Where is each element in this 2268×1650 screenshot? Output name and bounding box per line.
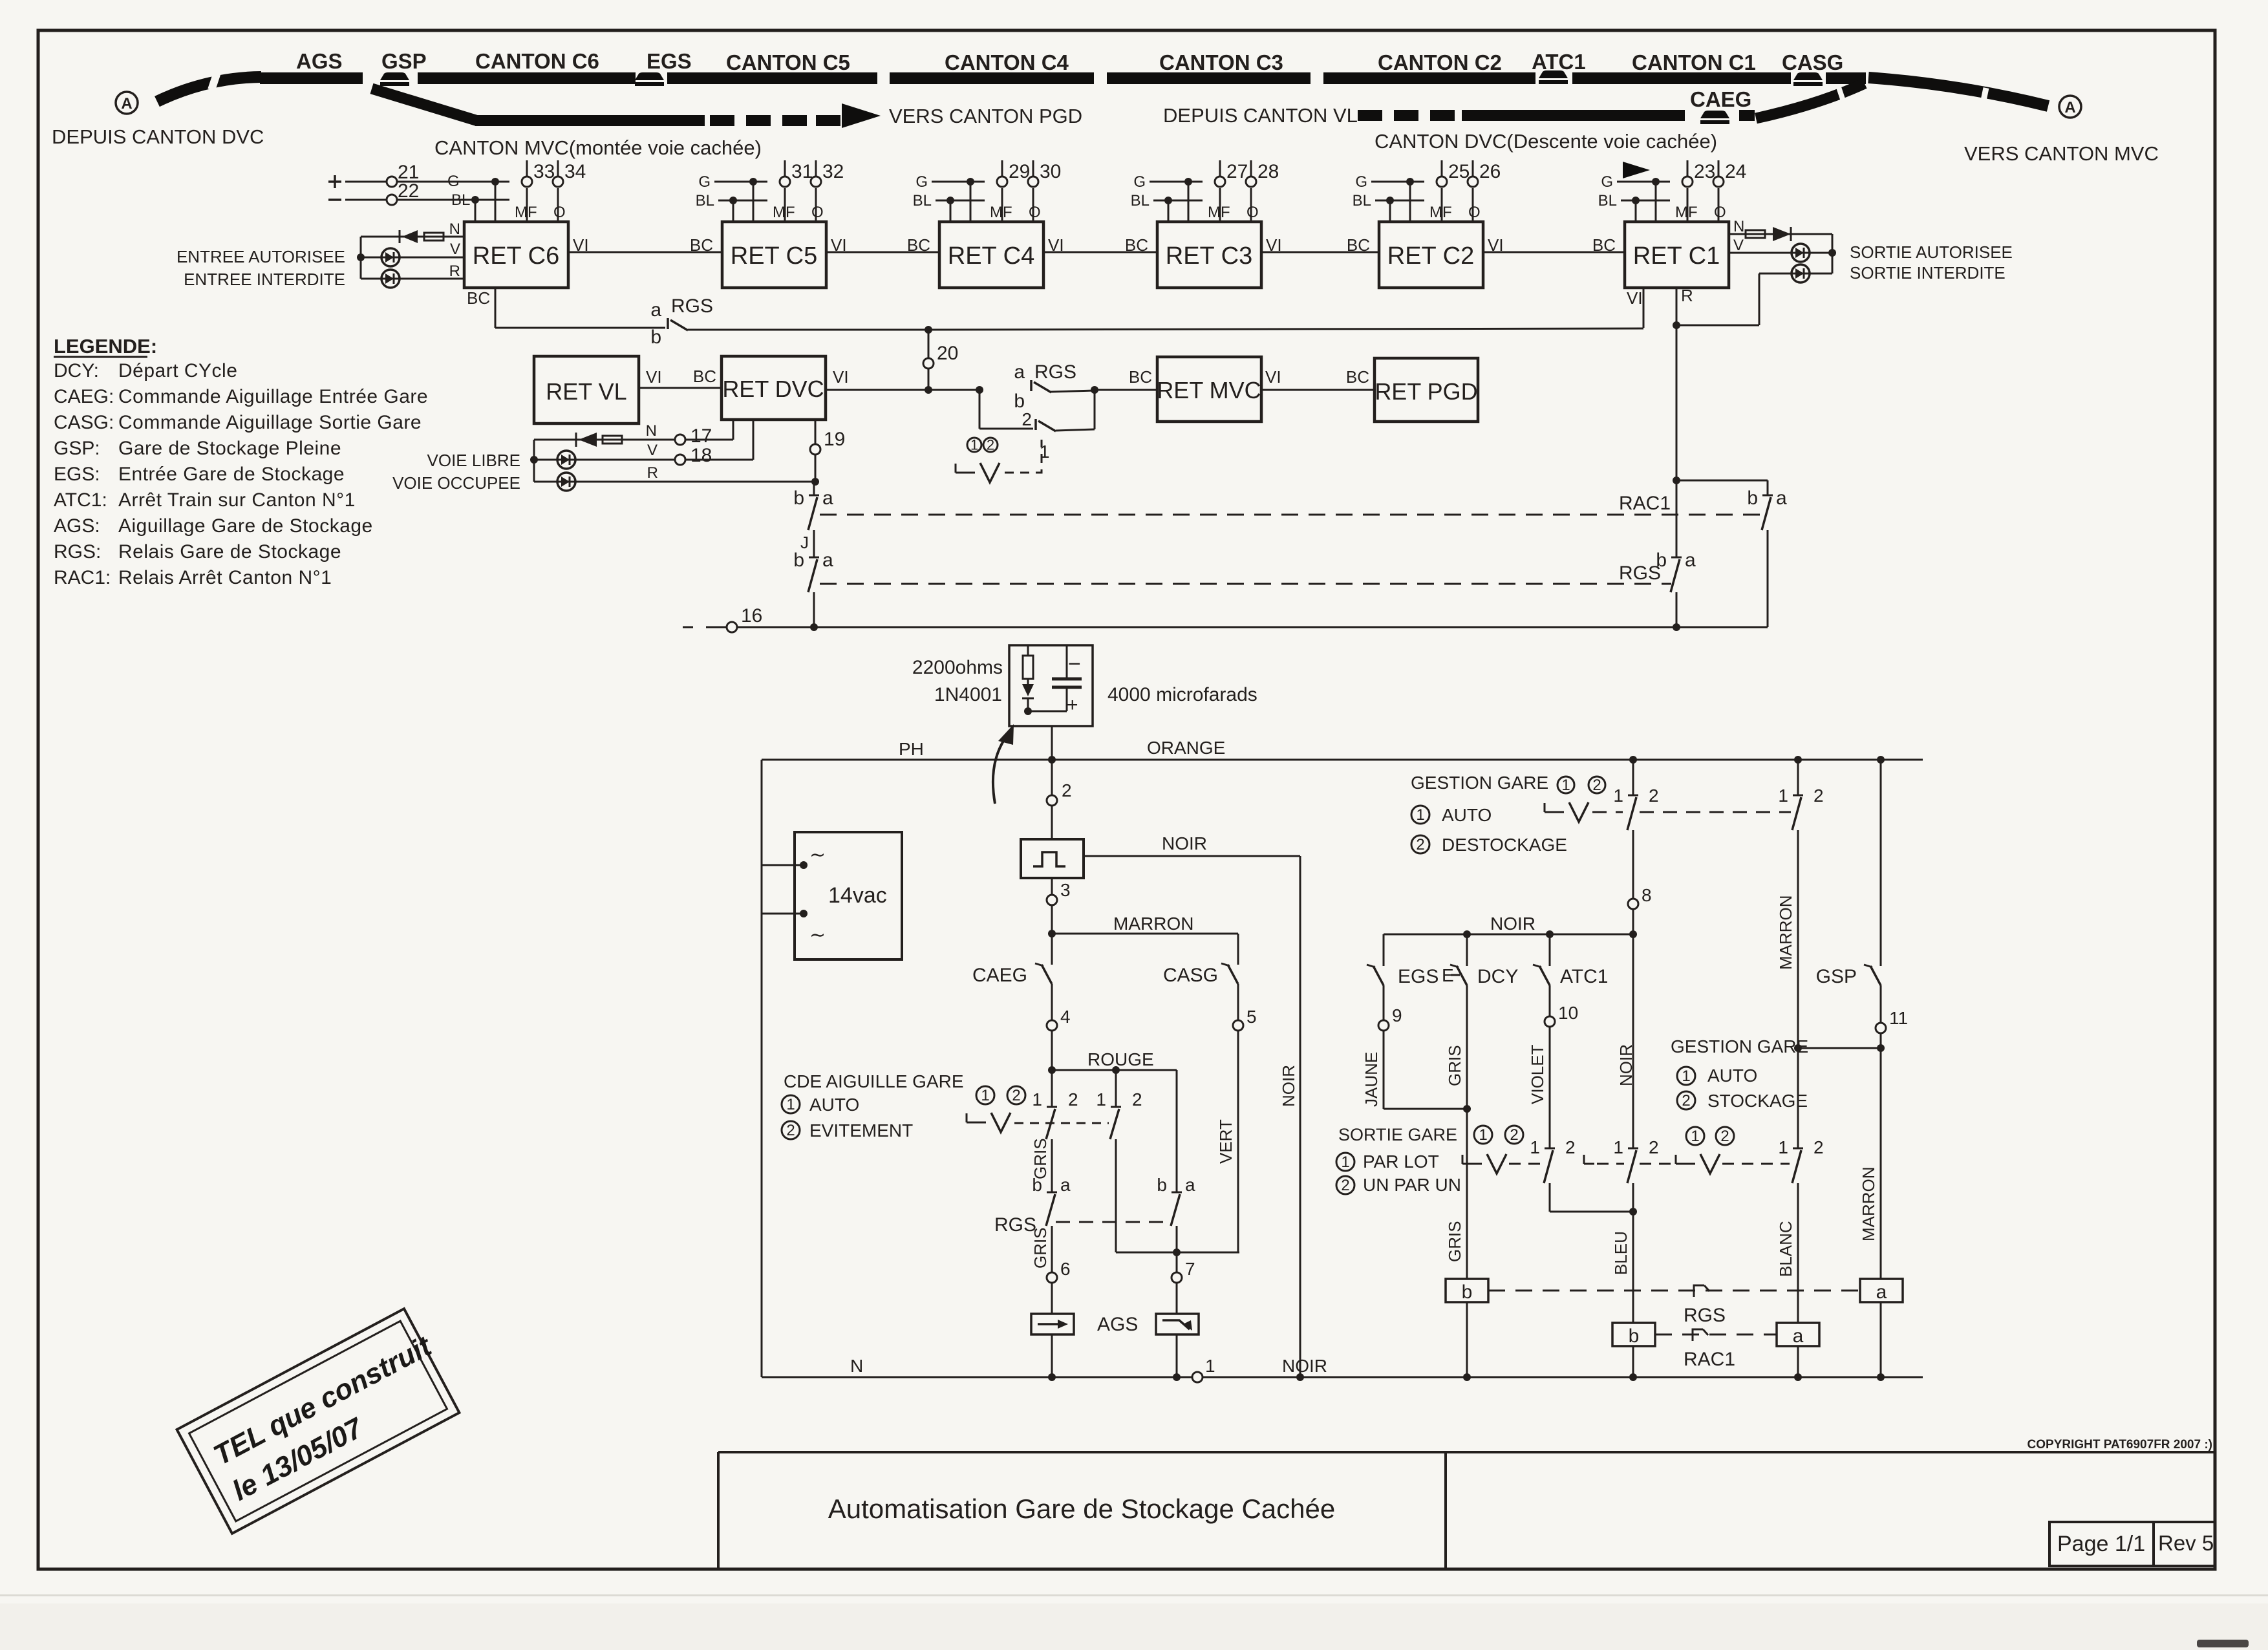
svg-text:Commande Aiguillage Sortie: Commande Aiguillage Sortie Gare (118, 412, 422, 433)
relay box RET MVC (1157, 357, 1261, 422)
svg-text:DCY:: DCY: (54, 360, 99, 381)
svg-text:CANTON C1: CANTON C1 (1632, 50, 1756, 74)
svg-text:N: N (449, 220, 460, 238)
svg-text:CAEG: CAEG (1690, 87, 1751, 111)
svg-text:1: 1 (1032, 1089, 1042, 1109)
contact 1/2 on CAEG rail (1051, 1070, 1053, 1107)
svg-text:RGS: RGS (1619, 562, 1661, 584)
svg-text:AGS:: AGS: (54, 515, 100, 537)
merge horizontal (1116, 1252, 1239, 1254)
svg-text:19: 19 (824, 429, 845, 450)
svg-text:2: 2 (786, 1122, 795, 1139)
svg-text:A: A (2064, 99, 2075, 116)
RC filter block box (1009, 645, 1093, 726)
GRIS rail DCY contact (1466, 934, 1468, 966)
svg-text:ROUGE: ROUGE (1087, 1049, 1154, 1069)
svg-text:N: N (646, 422, 657, 440)
C1 R pin down (1676, 288, 1678, 325)
dashed RGS relay row (1488, 1290, 1860, 1292)
selector symbol gestion top (1544, 803, 1546, 812)
contact b/a RGS left (809, 557, 819, 559)
svg-text:G: G (1601, 173, 1613, 191)
svg-text:1: 1 (1613, 786, 1623, 806)
svg-text:31: 31 (791, 161, 813, 182)
link MARRON-GSP rails (1798, 1047, 1881, 1049)
C6 BC pin down (495, 288, 497, 328)
right contact chain RAC1 (1676, 480, 1768, 482)
svg-text:2: 2 (1132, 1089, 1142, 1109)
block to PH wire (1051, 726, 1053, 760)
svg-text:G: G (1133, 173, 1146, 191)
svg-text:2: 2 (1062, 780, 1072, 800)
NOIR wire of DCY group (1384, 934, 1633, 936)
node 20 drop (928, 330, 930, 358)
dashed RAC1 line (820, 514, 1762, 516)
relay box RET C5 (722, 222, 826, 288)
AGS coil right (1156, 1314, 1199, 1334)
stamp TEL que construit (177, 1305, 465, 1534)
svg-text:O: O (1714, 204, 1726, 221)
svg-text:VOIE LIBRE: VOIE LIBRE (427, 451, 521, 470)
svg-text:2: 2 (1592, 777, 1601, 794)
svg-text:GRIS: GRIS (1445, 1045, 1464, 1086)
svg-text:VI: VI (1627, 288, 1643, 308)
svg-text:b: b (1656, 550, 1667, 571)
svg-text:2: 2 (1565, 1137, 1576, 1157)
C1 VI pin down (1643, 288, 1645, 328)
svg-text:22: 22 (398, 180, 419, 202)
bus BC from C6 to node 20 (495, 327, 665, 329)
track: lower line dashes right (1358, 110, 1382, 121)
svg-text:2: 2 (987, 436, 994, 453)
C1 LED bracket (1832, 234, 1834, 273)
svg-text:R: R (1681, 286, 1693, 305)
track: sensor icon GSP (380, 72, 409, 80)
svg-text:a: a (1014, 361, 1025, 383)
bus BC continues to C1 VI (928, 328, 1643, 330)
svg-text:Relais Gare de Stockage: Relais Gare de Stockage (118, 541, 341, 562)
svg-text:1: 1 (1778, 786, 1788, 806)
VERT rail (1237, 1031, 1239, 1252)
terminal 5 (1233, 1020, 1243, 1031)
svg-text:a: a (1776, 487, 1787, 509)
svg-text:AUTO: AUTO (1442, 805, 1492, 825)
svg-text:Automatisation Gare de Stoc: Automatisation Gare de Stockage Cachée (828, 1494, 1335, 1524)
svg-text:RET MVC: RET MVC (1157, 377, 1261, 403)
svg-text:a: a (1685, 550, 1696, 571)
contact 1/2 on rail 2781 top (1797, 760, 1799, 795)
svg-text:10: 10 (1558, 1003, 1578, 1023)
C6 N wire with diode and resistor (361, 236, 464, 238)
svg-text:a: a (1876, 1281, 1887, 1303)
svg-text:BLEU: BLEU (1611, 1231, 1631, 1275)
svg-text:1: 1 (981, 1087, 989, 1104)
svg-text:8: 8 (1642, 885, 1652, 905)
svg-text:UN PAR UN: UN PAR UN (1363, 1175, 1461, 1195)
svg-text:RET DVC: RET DVC (722, 376, 824, 402)
svg-text:SORTIE GARE: SORTIE GARE (1338, 1125, 1457, 1144)
page box (2049, 1522, 2154, 1566)
CASG contact (1237, 934, 1239, 965)
svg-text:25: 25 (1448, 161, 1470, 182)
svg-text:RET C6: RET C6 (473, 242, 559, 270)
svg-text:MF: MF (1675, 204, 1698, 221)
svg-text:9: 9 (1392, 1005, 1402, 1025)
svg-text:1N4001: 1N4001 (934, 684, 1002, 705)
svg-text:O: O (553, 204, 566, 221)
track: AGS diverging curve (372, 89, 478, 121)
svg-text:VERS CANTON PGD: VERS CANTON PGD (889, 105, 1082, 127)
terminal 7 (1176, 1252, 1178, 1272)
svg-text:V: V (647, 442, 658, 459)
voie libre LED (557, 451, 575, 469)
svg-text:G: G (915, 173, 928, 191)
LED entree autorisee (381, 248, 400, 266)
svg-text:GRIS: GRIS (1445, 1221, 1464, 1262)
svg-text:a: a (1185, 1175, 1195, 1195)
C6 LED bracket (360, 237, 362, 279)
contact 1/2 on MARRON rail lower (1797, 1048, 1799, 1148)
svg-text:∼: ∼ (809, 844, 826, 866)
track: lower main line solid left (475, 115, 705, 126)
svg-text:PAR LOT: PAR LOT (1363, 1152, 1439, 1172)
JAUNE rail EGS contact (1383, 934, 1385, 966)
right contact RGS on C1 R rail (1676, 325, 1678, 480)
svg-text:CAEG: CAEG (972, 965, 1027, 986)
relay box RET C4 (939, 222, 1043, 288)
track: arrow VERS CANTON PGD (842, 103, 881, 128)
svg-text:G: G (447, 173, 460, 190)
svg-text:2: 2 (1720, 1128, 1729, 1145)
svg-text:18: 18 (690, 445, 712, 466)
svg-text:b: b (1747, 487, 1758, 509)
svg-text:EGS: EGS (1398, 966, 1439, 987)
svg-text:BC: BC (693, 367, 716, 386)
selector symbol lower (966, 1113, 968, 1122)
svg-text:NOIR: NOIR (1162, 833, 1207, 853)
svg-text:ATC1:: ATC1: (54, 489, 107, 511)
relay box RET C6 (464, 222, 568, 288)
C6 V wire (361, 257, 464, 259)
svg-text:Relais Arrêt Canton N°1: Relais Arrêt Canton N°1 (118, 567, 332, 588)
pulse generator drop wire (1051, 760, 1053, 795)
svg-text:BL: BL (1131, 192, 1150, 209)
svg-text:1: 1 (1205, 1356, 1215, 1376)
svg-text:NOIR: NOIR (1490, 914, 1535, 934)
svg-text:STOCKAGE: STOCKAGE (1707, 1091, 1808, 1111)
rail 2526 to terminal 8 (1632, 830, 1634, 899)
svg-text:a: a (822, 487, 833, 509)
terminal 11 (1876, 1023, 1886, 1033)
track: sensor icon ATC1 (1539, 70, 1568, 78)
svg-text:GESTION GARE: GESTION GARE (1411, 773, 1548, 793)
svg-text:29: 29 (1009, 161, 1030, 182)
svg-text:CDE AIGUILLE GARE: CDE AIGUILLE GARE (784, 1071, 964, 1091)
wire DVC VI to RGS contact (826, 389, 979, 391)
track: left curve from A (157, 77, 261, 102)
svg-text:30: 30 (1040, 161, 1061, 182)
DVC pin N wire 17 (534, 439, 675, 441)
svg-text:MF: MF (1208, 204, 1230, 221)
pulse to MARRON wire (1051, 878, 1053, 895)
RET C2 top terminals 25/26 (1441, 188, 1443, 222)
relay b box RGS (1446, 1279, 1488, 1302)
PH ORANGE horizontal wire (762, 759, 1923, 761)
transformer 14vac box (795, 832, 902, 959)
C1 R wire to interdite LED (1673, 321, 1680, 329)
svg-text:b: b (1032, 1175, 1042, 1195)
svg-text:RET C2: RET C2 (1387, 242, 1474, 270)
svg-text:Entrée Gare de Stockage: Entrée Gare de Stockage (118, 464, 345, 485)
svg-text:1: 1 (970, 436, 978, 453)
svg-text:BC: BC (467, 288, 490, 308)
svg-text:VI: VI (646, 367, 662, 387)
relay b box RAC1 (1612, 1323, 1655, 1346)
svg-text:R: R (449, 262, 460, 280)
svg-text:MF: MF (515, 204, 537, 221)
svg-text:AGS: AGS (296, 49, 343, 73)
svg-text:BC: BC (1129, 367, 1152, 387)
svg-text:JAUNE: JAUNE (1362, 1052, 1381, 1107)
svg-text:b: b (650, 327, 661, 348)
svg-text:1: 1 (1682, 1067, 1690, 1085)
svg-text:1: 1 (1341, 1153, 1349, 1171)
svg-text:2: 2 (1068, 1089, 1078, 1109)
GRIS rail down to b box (1466, 1109, 1468, 1279)
svg-text:+: + (1067, 694, 1078, 716)
svg-text:CANTON C6: CANTON C6 (475, 49, 599, 73)
tick and dash to NOIR contact (1583, 1155, 1585, 1164)
svg-text:BL: BL (913, 192, 932, 209)
svg-text:b: b (1157, 1175, 1167, 1195)
wire to RET MVC (1095, 389, 1157, 391)
left supply rail (761, 760, 763, 1377)
svg-text:14vac: 14vac (828, 883, 887, 908)
svg-text:1: 1 (1479, 1126, 1487, 1144)
wire MVC to PGD (1261, 389, 1375, 391)
svg-text:1: 1 (1416, 806, 1424, 824)
track: lower line dashes to arrow (710, 115, 734, 126)
curved arrow to RC block (993, 737, 1006, 804)
svg-text:Page 1/1: Page 1/1 (2057, 1532, 2145, 1556)
terminal 9 (1378, 1020, 1389, 1031)
terminal + 21 (328, 180, 341, 183)
BLEU rail to b box RAC1 (1632, 1212, 1634, 1323)
junction before RGS contact (976, 386, 983, 394)
svg-text:GESTION GARE: GESTION GARE (1671, 1036, 1808, 1056)
svg-text:4: 4 (1060, 1007, 1071, 1027)
svg-text:NOIR: NOIR (1282, 1356, 1327, 1376)
svg-text:SORTIE AUTORISEE: SORTIE AUTORISEE (1850, 242, 2013, 262)
dashed RGS line (820, 583, 1671, 585)
wire RET VL to RET DVC (639, 387, 722, 389)
svg-text:R: R (647, 464, 658, 482)
svg-text:2: 2 (1341, 1177, 1349, 1194)
svg-text:∼: ∼ (809, 925, 826, 946)
svg-text:1: 1 (1691, 1128, 1699, 1145)
J link (813, 530, 815, 557)
svg-text:VIOLET: VIOLET (1528, 1044, 1547, 1104)
svg-text:a: a (1793, 1325, 1804, 1347)
svg-text:SORTIE INTERDITE: SORTIE INTERDITE (1850, 263, 2006, 283)
GSP contact (1864, 965, 1872, 967)
svg-text:RGS: RGS (671, 295, 713, 317)
svg-text:1: 1 (1530, 1137, 1540, 1157)
C1 interdite wire (1759, 273, 1832, 275)
svg-text:O: O (1468, 204, 1481, 221)
svg-text:2: 2 (1510, 1126, 1518, 1144)
contact a/RGS on BC bus (667, 318, 669, 329)
rev box (2154, 1522, 2215, 1566)
track: sensor icon CASG (1793, 72, 1823, 80)
N bus bottom (762, 1377, 1192, 1378)
svg-text:GRIS: GRIS (1031, 1138, 1050, 1179)
svg-text:2: 2 (1813, 1137, 1824, 1157)
svg-text:6: 6 (1060, 1259, 1071, 1279)
svg-text:EGS: EGS (647, 49, 692, 73)
svg-text:2: 2 (1813, 786, 1824, 806)
track: sensor icon EGS (635, 72, 664, 80)
dashed RAC1 relay row (1655, 1334, 1777, 1336)
svg-text:PH: PH (899, 739, 924, 759)
svg-text:CASG: CASG (1782, 50, 1843, 74)
svg-text:RGS:: RGS: (54, 541, 101, 562)
svg-text:AGS: AGS (1097, 1314, 1138, 1335)
svg-text:G: G (1355, 173, 1367, 191)
svg-text:MARRON: MARRON (1776, 895, 1795, 970)
svg-text:ATC1: ATC1 (1532, 50, 1586, 74)
selector circles gestion top (1557, 777, 1574, 793)
track: circle A left (116, 92, 138, 114)
dashed RGS lower (1056, 1221, 1170, 1223)
svg-text:CANTON C2: CANTON C2 (1378, 50, 1502, 74)
svg-text:33: 33 (533, 161, 555, 182)
svg-text:34: 34 (564, 161, 586, 182)
svg-text:ORANGE: ORANGE (1147, 738, 1225, 758)
svg-text:BC: BC (1346, 367, 1369, 387)
contact 1/2 on rail 2526 top (1632, 760, 1634, 795)
svg-text:NOIR: NOIR (1279, 1065, 1298, 1107)
RET C5 top terminals 31/32 (784, 188, 786, 222)
svg-text:CASG:: CASG: (54, 412, 114, 433)
svg-text:CASG: CASG (1163, 965, 1218, 986)
RET C3 top terminals 27/28 (1219, 188, 1221, 222)
C6 R wire (361, 278, 464, 280)
relay a box RGS (1860, 1279, 1903, 1302)
resistor 2200ohms (1027, 645, 1029, 656)
svg-text:EVITEMENT: EVITEMENT (809, 1120, 913, 1141)
svg-text:AUTO: AUTO (1707, 1066, 1757, 1086)
svg-text:VI: VI (1265, 367, 1281, 387)
relay box RET C1 (1625, 222, 1729, 288)
svg-text:b: b (1462, 1281, 1473, 1303)
svg-text:RET C3: RET C3 (1166, 242, 1252, 270)
MARRON wire (1052, 933, 1238, 935)
svg-text:23: 23 (1694, 161, 1715, 182)
svg-text:ENTREE AUTORISEE: ENTREE AUTORISEE (177, 247, 345, 266)
svg-text:4000 microfarads: 4000 microfarads (1107, 684, 1257, 705)
DVC pin 19 rail (815, 420, 817, 444)
svg-text:G: G (698, 173, 711, 191)
relay box RET DVC (722, 356, 826, 420)
svg-text:b: b (793, 550, 804, 571)
svg-text:DESTOCKAGE: DESTOCKAGE (1442, 835, 1567, 855)
svg-text:O: O (811, 204, 824, 221)
svg-text:CANTON MVC(montée voie cachée): CANTON MVC(montée voie cachée) (434, 136, 762, 159)
svg-text:RET PGD: RET PGD (1375, 378, 1477, 405)
selector circles sortie (1474, 1126, 1492, 1144)
svg-text:1: 1 (786, 1096, 795, 1113)
svg-text:26: 26 (1479, 161, 1501, 182)
svg-text:GRIS: GRIS (1031, 1227, 1050, 1269)
svg-text:Arrêt Train sur Canton N°1: Arrêt Train sur Canton N°1 (118, 489, 356, 511)
DVC pin V wire 18 (534, 459, 675, 461)
NOIR right rail (1300, 856, 1301, 1377)
RET C4 top terminals 29/30 (1001, 188, 1003, 222)
capacitor 4000uF (1066, 645, 1068, 658)
contact b/a RGS lower left (1047, 1192, 1057, 1194)
svg-text:RAC1: RAC1 (1684, 1349, 1735, 1370)
svg-text:MF: MF (1429, 204, 1452, 221)
svg-text:RAC1:: RAC1: (54, 567, 111, 588)
contact 1/2 on VIOLET rail (1545, 1148, 1555, 1150)
selector circles gestion2 (1686, 1127, 1704, 1145)
svg-text:2: 2 (1682, 1092, 1690, 1109)
title block (718, 1451, 2215, 1453)
track: CASG merge curve (1756, 83, 1865, 118)
svg-text:DEPUIS CANTON VL: DEPUIS CANTON VL (1163, 104, 1358, 127)
track: upper storage line segments (260, 72, 363, 84)
contact b/a RGS lower right (1171, 1192, 1182, 1194)
ROUGE wire (1052, 1069, 1177, 1071)
svg-text:Gare de Stockage Pleine: Gare de Stockage Pleine (118, 438, 341, 459)
terminal - 22 (328, 198, 341, 201)
svg-text:b: b (793, 487, 804, 509)
svg-text:BL: BL (1353, 192, 1371, 209)
svg-text:VI: VI (833, 367, 849, 387)
pulse NOIR output wire (1084, 855, 1300, 857)
svg-text:2: 2 (1022, 409, 1032, 429)
svg-text:1: 1 (1778, 1137, 1788, 1157)
svg-text:a: a (822, 550, 833, 571)
C1 V wire (1729, 252, 1832, 254)
LED sortie autorisee (1792, 244, 1810, 262)
svg-text:3: 3 (1060, 880, 1071, 900)
bracket voie libre (533, 440, 535, 482)
svg-text:GSP:: GSP: (54, 438, 100, 459)
LED sortie interdite (1792, 264, 1810, 283)
selector symbol gestion2 (1640, 1163, 1672, 1165)
svg-text:O: O (1029, 204, 1041, 221)
track: circle A right (2059, 96, 2081, 118)
contact 1/2 on bypass rail (1115, 1070, 1117, 1107)
selector circles 1 2 for evitement (967, 438, 981, 452)
svg-text:MARRON: MARRON (1113, 914, 1193, 934)
BLANC rail (1797, 1183, 1799, 1323)
svg-text:NOIR: NOIR (1616, 1044, 1636, 1086)
svg-text:VERS CANTON MVC: VERS CANTON MVC (1964, 142, 2159, 165)
rail 1820 from ROUGE corner (1176, 1070, 1178, 1192)
bottom link line to right contacts (814, 627, 1676, 628)
svg-text:−: − (1068, 652, 1081, 676)
MARRON rail lower (1880, 1048, 1882, 1279)
svg-text:11: 11 (1889, 1008, 1908, 1028)
svg-text:5: 5 (1246, 1007, 1257, 1027)
svg-text:CANTON C5: CANTON C5 (726, 50, 850, 74)
AGS coil left (1031, 1314, 1074, 1334)
svg-text:BL: BL (696, 192, 714, 209)
voie occupee wire R (534, 481, 814, 483)
